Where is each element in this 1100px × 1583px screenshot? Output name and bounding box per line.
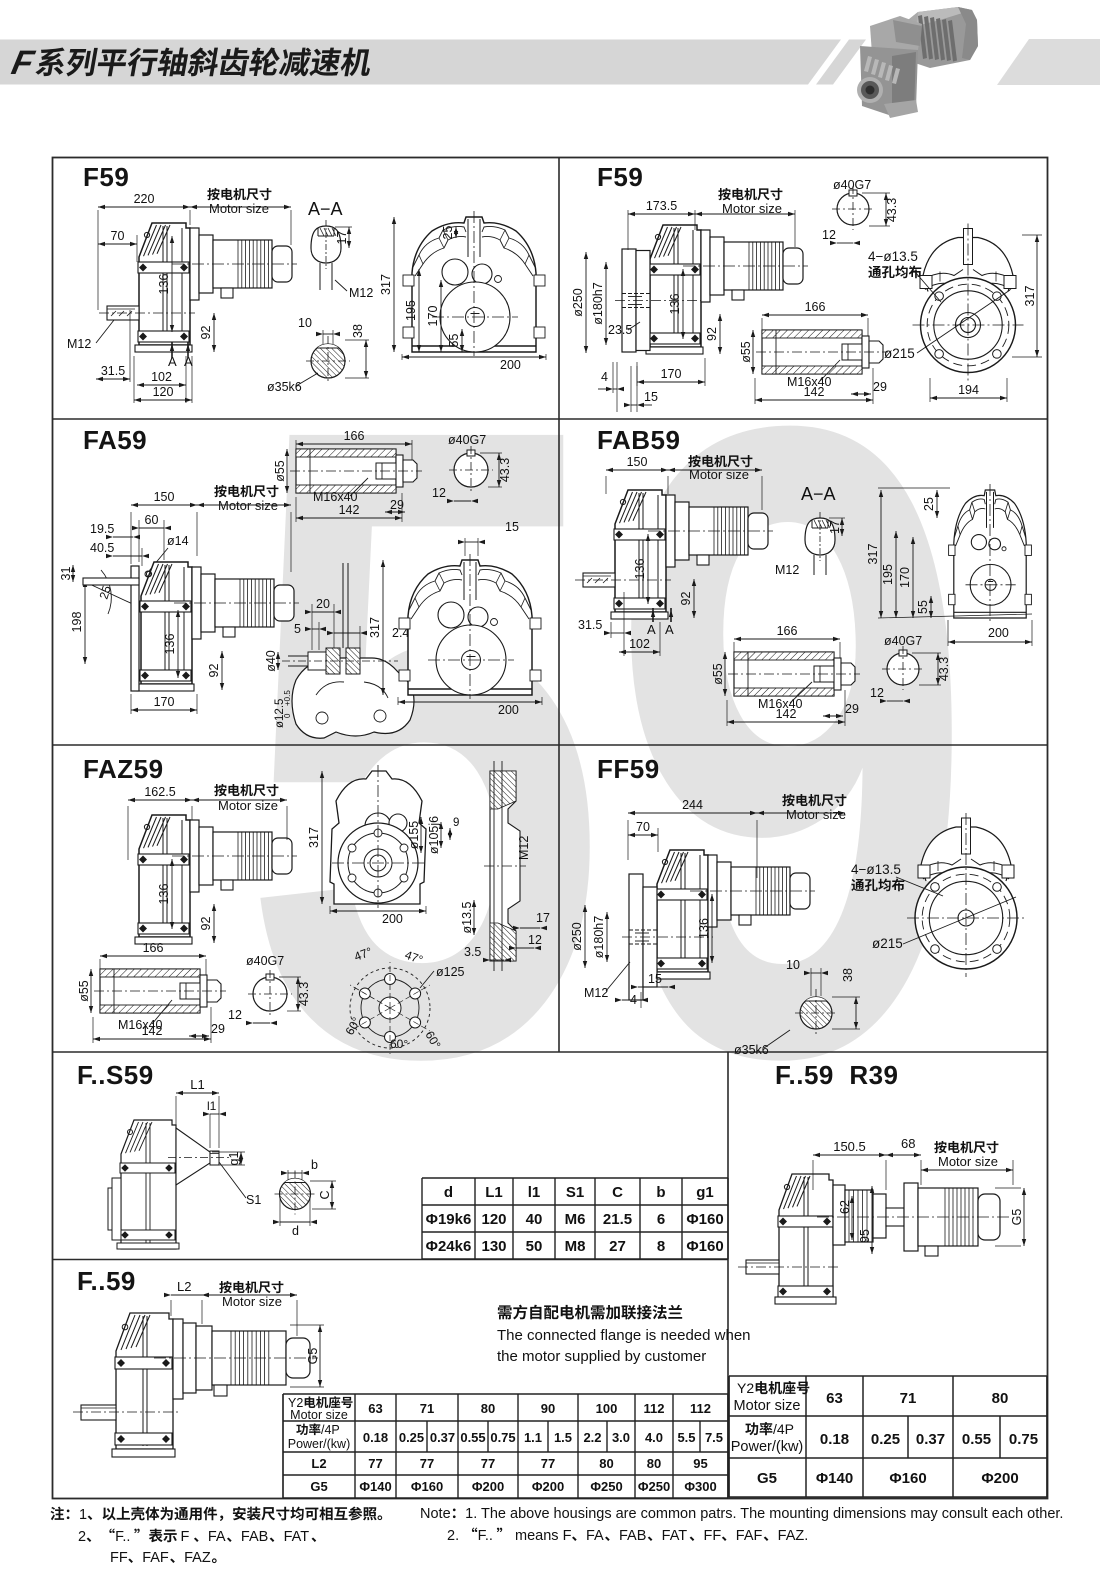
svg-text:95: 95 (858, 1229, 872, 1243)
svg-text:166: 166 (805, 300, 826, 314)
svg-text:A: A (665, 622, 674, 637)
svg-text:F..: F.. (478, 1528, 493, 1544)
svg-text:FAB: FAB (241, 1529, 268, 1545)
svg-text:Note: Note (420, 1506, 451, 1522)
svg-text:120: 120 (481, 1211, 506, 1228)
svg-text:3.5: 3.5 (464, 945, 481, 959)
svg-text:170: 170 (898, 567, 912, 588)
svg-text:12: 12 (432, 486, 446, 500)
svg-text:100: 100 (596, 1401, 618, 1416)
svg-text:112: 112 (690, 1401, 711, 1416)
svg-text:200: 200 (500, 358, 521, 372)
svg-text:ø40G7: ø40G7 (833, 178, 871, 192)
svg-text:ø155: ø155 (407, 821, 421, 850)
svg-text:F..: F.. (115, 1529, 130, 1545)
svg-text:27: 27 (609, 1238, 626, 1255)
svg-text:29: 29 (845, 702, 859, 716)
svg-text:Φ160: Φ160 (411, 1479, 443, 1494)
svg-text:Φ19k6: Φ19k6 (426, 1211, 472, 1228)
svg-text:142: 142 (776, 707, 797, 721)
svg-text:Y: Y (737, 1380, 747, 1396)
svg-text:Power/(kw): Power/(kw) (288, 1437, 351, 1451)
svg-text:130: 130 (481, 1238, 506, 1255)
svg-text:120: 120 (153, 385, 174, 399)
svg-text:244: 244 (682, 798, 703, 812)
svg-text:40: 40 (526, 1211, 543, 1228)
svg-text:FAT: FAT (662, 1528, 688, 1544)
svg-text:FAB59: FAB59 (597, 425, 680, 455)
svg-text:F59: F59 (597, 162, 643, 192)
svg-text:1.5: 1.5 (554, 1430, 572, 1445)
svg-text:4: 4 (601, 370, 608, 384)
svg-text:b: b (656, 1184, 665, 1201)
svg-text:Φ200: Φ200 (981, 1470, 1018, 1487)
svg-text:2.: 2. (447, 1528, 459, 1544)
svg-text:43.3: 43.3 (885, 198, 899, 222)
svg-text:means F: means F (515, 1528, 572, 1544)
svg-text:ø215: ø215 (884, 346, 915, 361)
svg-text:Φ140: Φ140 (816, 1470, 853, 1487)
svg-text:68: 68 (901, 1136, 915, 1151)
svg-text:FA59: FA59 (83, 425, 147, 455)
svg-text:31.5: 31.5 (101, 364, 125, 378)
svg-text:ø250: ø250 (570, 922, 584, 951)
svg-text:M12: M12 (775, 563, 799, 577)
svg-text:29: 29 (211, 1022, 225, 1036)
svg-text:92: 92 (207, 664, 221, 678)
svg-text:/: / (321, 1423, 325, 1437)
svg-text:102: 102 (151, 370, 172, 384)
svg-text:A−A: A−A (308, 199, 343, 219)
svg-text:20: 20 (316, 597, 330, 611)
svg-text:59: 59 (240, 241, 976, 1243)
svg-text:170: 170 (661, 367, 682, 381)
svg-text:G5: G5 (306, 1348, 320, 1365)
svg-text:Φ24k6: Φ24k6 (426, 1238, 472, 1255)
svg-text:31: 31 (59, 567, 73, 581)
svg-text:77: 77 (420, 1456, 434, 1471)
svg-text:70: 70 (111, 229, 125, 243)
svg-text:M8: M8 (565, 1238, 586, 1255)
svg-text:17: 17 (536, 911, 550, 925)
svg-text:F..59 R39: F..59 R39 (775, 1060, 899, 1090)
svg-text:102: 102 (629, 637, 650, 651)
svg-text:G5: G5 (1010, 1209, 1024, 1226)
svg-text:70: 70 (636, 820, 650, 834)
svg-text:317: 317 (368, 617, 382, 638)
svg-text:ø180h7: ø180h7 (591, 282, 605, 324)
svg-text:0.18: 0.18 (820, 1431, 849, 1448)
svg-text:Motor size: Motor size (218, 498, 278, 513)
svg-text:43.3: 43.3 (937, 657, 951, 681)
svg-text:166: 166 (777, 624, 798, 638)
svg-text:M16x40: M16x40 (313, 490, 358, 504)
svg-text:FAZ: FAZ (184, 1550, 211, 1566)
svg-text:Φ300: Φ300 (684, 1479, 716, 1494)
svg-text:4−ø13.5: 4−ø13.5 (851, 862, 901, 877)
svg-text:12: 12 (870, 686, 884, 700)
svg-text:ø105j6: ø105j6 (427, 816, 441, 854)
svg-text:0.55: 0.55 (460, 1430, 485, 1445)
svg-text:M6: M6 (565, 1211, 586, 1228)
svg-text:4: 4 (324, 1423, 331, 1437)
svg-text:FAZ.: FAZ. (778, 1528, 809, 1544)
svg-text:ø55: ø55 (711, 663, 725, 685)
svg-text:ø55: ø55 (273, 460, 287, 482)
svg-text:6: 6 (657, 1211, 665, 1228)
svg-text:63: 63 (826, 1390, 843, 1407)
svg-text:0.37: 0.37 (916, 1431, 945, 1448)
svg-text:63: 63 (368, 1401, 382, 1416)
svg-text:ø40: ø40 (264, 650, 278, 672)
svg-text:d: d (292, 1224, 299, 1238)
svg-text:0.25: 0.25 (399, 1430, 424, 1445)
svg-text:162.5: 162.5 (144, 785, 175, 799)
svg-text:150: 150 (627, 455, 648, 469)
svg-text:136: 136 (157, 884, 171, 905)
svg-text:S1: S1 (566, 1184, 584, 1201)
svg-text:P: P (331, 1423, 339, 1437)
svg-text:200: 200 (498, 703, 519, 717)
svg-text:12: 12 (822, 228, 836, 242)
svg-text:19.5: 19.5 (90, 522, 114, 536)
svg-text:/: / (773, 1421, 777, 1437)
svg-text:g1: g1 (696, 1184, 714, 1201)
svg-text:0.75: 0.75 (490, 1430, 515, 1445)
svg-text:ø40G7: ø40G7 (884, 634, 922, 648)
svg-text:92: 92 (199, 917, 213, 931)
svg-text:C: C (612, 1184, 623, 1201)
svg-text:ø55: ø55 (77, 980, 91, 1002)
svg-text:5.5: 5.5 (677, 1430, 695, 1445)
svg-text:62: 62 (838, 1200, 852, 1214)
svg-text:ø13.5: ø13.5 (460, 901, 474, 933)
svg-text:P: P (785, 1421, 794, 1437)
svg-text:150: 150 (154, 490, 175, 504)
svg-text:77: 77 (541, 1456, 555, 1471)
svg-text:S1: S1 (246, 1193, 261, 1207)
svg-text:ø215: ø215 (872, 936, 903, 951)
svg-text:0.75: 0.75 (1009, 1431, 1038, 1448)
svg-text:FAF: FAF (736, 1528, 763, 1544)
svg-text:ø55: ø55 (739, 341, 753, 363)
svg-text:Φ160: Φ160 (889, 1470, 926, 1487)
svg-text:Motor size: Motor size (938, 1154, 998, 1169)
svg-text:FF: FF (110, 1550, 128, 1566)
svg-text:170: 170 (154, 695, 175, 709)
svg-text:l1: l1 (207, 1099, 217, 1113)
svg-text:7.5: 7.5 (705, 1430, 723, 1445)
svg-text:Φ250: Φ250 (590, 1479, 622, 1494)
svg-text:The connected flange is needed: The connected flange is needed when (497, 1327, 751, 1344)
svg-text:112: 112 (644, 1401, 665, 1416)
svg-text:M12: M12 (517, 836, 531, 860)
svg-text:194: 194 (958, 383, 979, 397)
svg-text:38: 38 (351, 324, 365, 338)
svg-text:92: 92 (705, 327, 719, 341)
svg-text:L2: L2 (177, 1279, 191, 1294)
svg-text:198: 198 (70, 612, 84, 633)
svg-text:ø35k6: ø35k6 (267, 380, 302, 394)
svg-text:40.5: 40.5 (90, 541, 114, 555)
svg-text:17: 17 (335, 231, 349, 245)
svg-text:2: 2 (746, 1380, 754, 1396)
svg-text:ø180h7: ø180h7 (592, 916, 606, 958)
svg-text:15: 15 (505, 520, 519, 534)
svg-text:8: 8 (657, 1238, 665, 1255)
svg-text:ø35k6: ø35k6 (734, 1043, 769, 1057)
svg-text:+0.5: +0.5 (283, 690, 292, 706)
svg-text:25: 25 (441, 226, 455, 240)
svg-text:Motor size: Motor size (689, 467, 749, 482)
svg-text:195: 195 (404, 300, 418, 321)
svg-text:d: d (444, 1184, 453, 1201)
svg-text:1.1: 1.1 (524, 1430, 542, 1445)
svg-text:FF59: FF59 (597, 754, 660, 784)
svg-text:29: 29 (873, 380, 887, 394)
svg-text:92: 92 (679, 592, 693, 606)
svg-text:Motor size: Motor size (290, 1408, 348, 1422)
svg-text:M12: M12 (349, 286, 373, 300)
svg-text:55: 55 (916, 600, 930, 614)
svg-text:166: 166 (344, 429, 365, 443)
svg-text:4.0: 4.0 (645, 1430, 663, 1445)
svg-text:Φ160: Φ160 (686, 1211, 723, 1228)
svg-text:L2: L2 (311, 1456, 326, 1471)
svg-text:4−ø13.5: 4−ø13.5 (868, 249, 918, 264)
svg-text:M12: M12 (584, 986, 608, 1000)
svg-text:G5: G5 (310, 1479, 327, 1494)
svg-text:Motor size: Motor size (786, 807, 846, 822)
svg-text:43.3: 43.3 (498, 458, 512, 482)
svg-text:0.25: 0.25 (871, 1431, 900, 1448)
svg-text:ø250: ø250 (571, 288, 585, 317)
svg-text:1. The above housings are com: 1. The above housings are common patrs. … (465, 1506, 1063, 1522)
svg-text:71: 71 (420, 1401, 434, 1416)
svg-text:15: 15 (644, 390, 658, 404)
svg-text:Motor size: Motor size (734, 1398, 801, 1414)
svg-text:150.5: 150.5 (833, 1139, 866, 1154)
svg-text:FF: FF (704, 1528, 722, 1544)
svg-text:80: 80 (481, 1401, 495, 1416)
svg-text:1: 1 (79, 1507, 87, 1523)
svg-text:A: A (647, 622, 656, 637)
svg-text:F: F (180, 1529, 189, 1545)
svg-text:317: 317 (307, 827, 321, 848)
svg-text:142: 142 (339, 503, 360, 517)
svg-text:Φ200: Φ200 (532, 1479, 564, 1494)
svg-text:77: 77 (481, 1456, 495, 1471)
svg-text:0.55: 0.55 (962, 1431, 991, 1448)
svg-text:136: 136 (633, 559, 647, 580)
svg-text:55: 55 (447, 334, 461, 348)
svg-text:142: 142 (804, 385, 825, 399)
svg-text:ø14: ø14 (167, 534, 189, 548)
svg-text:71: 71 (900, 1390, 917, 1407)
svg-text:Power/(kw): Power/(kw) (731, 1439, 804, 1455)
svg-text:Motor size: Motor size (209, 201, 269, 216)
svg-text:12: 12 (228, 1008, 242, 1022)
svg-text:G5: G5 (757, 1470, 777, 1487)
svg-text:38: 38 (841, 968, 855, 982)
svg-text:9: 9 (453, 817, 459, 829)
svg-text:F..59: F..59 (77, 1266, 136, 1296)
svg-text:317: 317 (866, 544, 880, 565)
svg-text:Φ160: Φ160 (686, 1238, 723, 1255)
svg-text:g1: g1 (227, 1152, 241, 1166)
svg-text:77: 77 (368, 1456, 382, 1471)
svg-text:136: 136 (157, 274, 171, 295)
svg-text:92: 92 (199, 326, 213, 340)
svg-text:C: C (318, 1190, 332, 1199)
svg-text:317: 317 (379, 274, 393, 295)
svg-text:0.18: 0.18 (363, 1430, 388, 1445)
svg-text:195: 195 (881, 564, 895, 585)
svg-text:17: 17 (828, 520, 842, 534)
svg-text:FA: FA (208, 1529, 226, 1545)
svg-text:60: 60 (145, 513, 159, 527)
svg-text:170: 170 (426, 306, 440, 327)
svg-text:FAB: FAB (619, 1528, 646, 1544)
svg-text:10: 10 (786, 958, 800, 972)
svg-text:L1: L1 (485, 1184, 503, 1201)
svg-text:2.2: 2.2 (583, 1430, 601, 1445)
svg-text:5: 5 (294, 622, 301, 636)
svg-text:4: 4 (777, 1421, 785, 1437)
svg-text:3.0: 3.0 (612, 1430, 630, 1445)
svg-text:L1: L1 (190, 1077, 204, 1092)
svg-text:15: 15 (648, 972, 662, 986)
svg-text:136: 136 (668, 294, 682, 315)
svg-text:200: 200 (382, 912, 403, 926)
svg-text:317: 317 (1023, 286, 1037, 307)
svg-text:10: 10 (298, 316, 312, 330)
svg-text:12: 12 (528, 933, 542, 947)
svg-text:ø40G7: ø40G7 (448, 433, 486, 447)
svg-text:Φ200: Φ200 (472, 1479, 504, 1494)
svg-text:FAF: FAF (142, 1550, 169, 1566)
svg-text:F..S59: F..S59 (77, 1060, 154, 1090)
svg-text:50: 50 (526, 1238, 543, 1255)
svg-text:173.5: 173.5 (646, 199, 677, 213)
svg-text:200: 200 (988, 626, 1009, 640)
svg-text:b: b (311, 1158, 318, 1172)
svg-text:F59: F59 (83, 162, 129, 192)
svg-text:166: 166 (143, 941, 164, 955)
svg-text:ø125: ø125 (436, 965, 465, 979)
svg-text:Φ140: Φ140 (359, 1479, 391, 1494)
svg-text:Φ250: Φ250 (638, 1479, 670, 1494)
svg-text:80: 80 (599, 1456, 613, 1471)
svg-text:142: 142 (142, 1024, 163, 1038)
svg-text:0: 0 (283, 713, 292, 718)
svg-text:136: 136 (697, 918, 711, 939)
svg-text:ø40G7: ø40G7 (246, 954, 284, 968)
svg-text:60°: 60° (390, 1037, 408, 1051)
svg-text:FA: FA (586, 1528, 604, 1544)
svg-text:FAZ59: FAZ59 (83, 754, 164, 784)
svg-text:M12: M12 (67, 337, 91, 351)
svg-text:90: 90 (541, 1401, 555, 1416)
svg-text:31.5: 31.5 (578, 618, 602, 632)
svg-text:l1: l1 (528, 1184, 541, 1201)
svg-text:80: 80 (647, 1456, 661, 1471)
svg-text:the motor supplied by customer: the motor supplied by customer (497, 1348, 706, 1365)
svg-text:Motor size: Motor size (222, 1294, 282, 1309)
svg-text:43.3: 43.3 (297, 982, 311, 1006)
svg-text:95: 95 (693, 1456, 707, 1471)
svg-text:80: 80 (992, 1390, 1009, 1407)
svg-text:0.37: 0.37 (430, 1430, 455, 1445)
svg-text:136: 136 (163, 634, 177, 655)
svg-text:25: 25 (922, 497, 936, 511)
svg-text:2: 2 (78, 1529, 86, 1545)
svg-text:FAT: FAT (284, 1529, 310, 1545)
svg-text:220: 220 (134, 192, 155, 206)
svg-text:A−A: A−A (801, 484, 836, 504)
svg-text:21.5: 21.5 (603, 1211, 632, 1228)
